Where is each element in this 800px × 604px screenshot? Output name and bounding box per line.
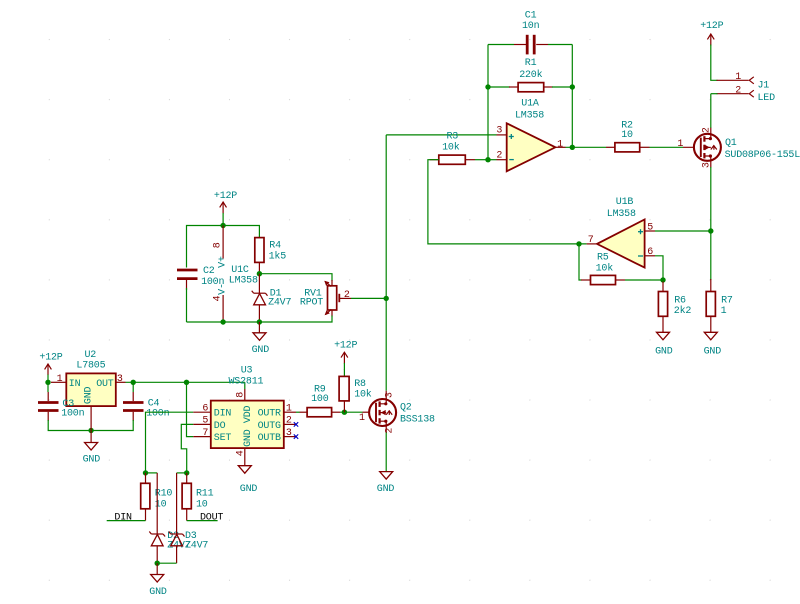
junction R11 top	[184, 470, 189, 475]
wire Q2 drain pin	[385, 391, 387, 399]
junction U1A output	[570, 145, 575, 150]
svg-text:8: 8	[236, 392, 247, 398]
svg-text:Q2: Q2	[400, 403, 412, 414]
svg-text:GND: GND	[655, 347, 673, 358]
svg-text:GND: GND	[240, 484, 258, 495]
svg-text:WS2811: WS2811	[228, 377, 263, 388]
resistor R1	[488, 83, 572, 92]
power +12P mid left	[220, 202, 227, 226]
svg-text:2: 2	[496, 150, 502, 161]
svg-text:7: 7	[588, 235, 594, 246]
svg-text:8: 8	[213, 242, 224, 248]
junction pin2	[485, 157, 490, 162]
wire J1 pin2 down	[711, 93, 718, 95]
wire SET to rail	[187, 382, 194, 436]
wire bottom rail ref	[187, 316, 333, 323]
op-amp U1A	[497, 123, 566, 171]
wire R9 to gate	[340, 411, 363, 413]
svg-text:GND: GND	[243, 429, 254, 447]
svg-text:GND: GND	[704, 347, 722, 358]
svg-text:4: 4	[236, 450, 247, 456]
zener D1	[252, 274, 268, 322]
svg-text:DO: DO	[214, 421, 226, 432]
svg-text:100: 100	[311, 394, 329, 405]
wire op-amp pin3	[386, 134, 496, 136]
svg-text:6: 6	[647, 247, 653, 258]
ground under R6	[657, 332, 670, 340]
zener D2	[149, 473, 165, 563]
svg-text:1: 1	[557, 139, 563, 150]
svg-text:C1: C1	[525, 10, 537, 21]
svg-text:R4: R4	[269, 241, 281, 252]
svg-text:1: 1	[57, 374, 63, 385]
wire op-amp pin2	[488, 159, 497, 161]
svg-text:OUT: OUT	[96, 379, 114, 390]
wire U1A output	[566, 146, 607, 148]
wire R3 right	[475, 159, 488, 161]
wire feedback right vertical	[571, 45, 573, 148]
svg-text:R3: R3	[446, 132, 458, 143]
svg-text:R5: R5	[597, 252, 609, 263]
svg-text:Q1: Q1	[725, 138, 737, 149]
wire DO	[181, 424, 193, 473]
wire net DOUT	[187, 520, 218, 522]
svg-text:10n: 10n	[522, 21, 540, 32]
svg-text:6: 6	[202, 403, 208, 414]
svg-text:OUTR: OUTR	[258, 409, 281, 420]
svg-text:3: 3	[496, 126, 502, 137]
wire gnd rail U2	[48, 420, 133, 431]
svg-text:2: 2	[286, 416, 292, 427]
wire OUTR to R9	[296, 411, 300, 413]
svg-text:U1A: U1A	[521, 99, 539, 110]
resistor R7	[706, 279, 715, 332]
wire 5V rail	[126, 381, 245, 383]
wire D2 branch	[146, 472, 158, 474]
wire Q2 source down	[385, 426, 387, 472]
svg-text:+12P: +12P	[700, 21, 723, 32]
power +12P U2	[45, 364, 52, 382]
svg-text:+12P: +12P	[39, 352, 62, 363]
zener D3	[169, 473, 185, 563]
wire pin5	[655, 230, 711, 232]
ic U3 WS2811	[193, 389, 296, 466]
ground under D2 D3	[151, 563, 164, 582]
resistor R10	[141, 473, 150, 521]
svg-text:U3: U3	[241, 366, 253, 377]
wire C1 right	[548, 44, 572, 46]
no-connect OUTB	[294, 434, 298, 438]
resistor R2	[606, 143, 650, 152]
wire net DIN	[107, 520, 146, 522]
svg-text:10k: 10k	[596, 262, 614, 274]
regulator U2	[51, 373, 126, 418]
svg-text:2: 2	[344, 290, 350, 301]
wire pin3 drop vertical	[385, 135, 387, 391]
connector J1 pin2	[717, 90, 754, 97]
wire R4 to RV1 top	[259, 274, 332, 281]
svg-text:3: 3	[286, 428, 292, 439]
power +12P top right	[707, 34, 714, 46]
svg-text:GND: GND	[83, 387, 94, 405]
svg-text:7: 7	[202, 428, 208, 439]
svg-text:5: 5	[202, 416, 208, 427]
svg-text:10k: 10k	[442, 142, 460, 154]
svg-text:SET: SET	[214, 433, 232, 444]
svg-text:10: 10	[621, 130, 633, 141]
svg-text:Z4V7: Z4V7	[185, 541, 208, 552]
svg-text:IN: IN	[69, 379, 81, 390]
svg-text:+12P: +12P	[334, 340, 357, 351]
wire C2 bottom	[186, 288, 188, 322]
junction +12P rail	[220, 223, 225, 228]
svg-text:10: 10	[196, 499, 208, 510]
wire D3 branch	[177, 472, 187, 474]
capacitor C1	[514, 35, 548, 55]
wire top rail C2 R4	[187, 226, 260, 268]
junction R8 gate	[342, 410, 347, 415]
svg-text:GND: GND	[377, 484, 395, 495]
svg-text:3: 3	[117, 374, 123, 385]
svg-text:100n: 100n	[146, 409, 169, 420]
resistor R4	[255, 238, 264, 274]
junction R1 left	[485, 84, 490, 89]
svg-text:BSS138: BSS138	[400, 414, 435, 425]
potentiometer RV1	[324, 280, 351, 317]
junction gnd diodes	[155, 561, 160, 566]
wire C1 left	[488, 44, 514, 46]
junction C4 rail	[131, 380, 136, 385]
capacitor C3	[38, 382, 59, 421]
transistor Q1	[683, 133, 721, 162]
svg-text:DIN: DIN	[214, 409, 232, 420]
svg-text:DIN: DIN	[114, 512, 132, 523]
junction R4 bottom	[257, 271, 262, 276]
ground under U2	[85, 418, 98, 450]
junction SET rail	[184, 380, 189, 385]
ground under U3	[238, 466, 251, 474]
svg-text:U1C: U1C	[231, 265, 249, 276]
op-amp power unit U1C pin 4	[222, 295, 224, 322]
capacitor C4	[123, 382, 144, 421]
wire feedback left vertical	[487, 45, 489, 160]
svg-text:GND: GND	[252, 345, 270, 356]
svg-text:5: 5	[647, 222, 653, 233]
svg-text:10: 10	[155, 499, 167, 510]
wire +12P to J1 pin1	[711, 45, 718, 81]
svg-text:Z4V7: Z4V7	[268, 298, 291, 309]
junction gnd rail	[88, 428, 93, 433]
svg-text:RPOT: RPOT	[300, 298, 323, 309]
wire Q1 drain up	[710, 128, 712, 135]
svg-text:GND: GND	[83, 455, 101, 466]
wire U1B out to R5	[579, 244, 582, 280]
resistor R11	[182, 473, 191, 521]
junction R10 top	[143, 470, 148, 475]
junction pin5 R7	[708, 228, 713, 233]
svg-text:R7: R7	[721, 295, 733, 306]
svg-text:10k: 10k	[354, 388, 372, 400]
svg-text:U2: U2	[84, 350, 96, 361]
svg-text:R1: R1	[525, 58, 537, 69]
svg-text:2: 2	[735, 86, 741, 97]
resistor R8	[339, 369, 349, 412]
svg-text:LM358: LM358	[607, 209, 636, 220]
wire R3 to U1B output	[428, 160, 587, 244]
resistor R3	[430, 155, 476, 164]
svg-text:R8: R8	[354, 379, 366, 390]
svg-text:DOUT: DOUT	[200, 512, 223, 523]
junction RV1 wiper	[384, 296, 389, 301]
svg-text:SUD08P06-155L: SUD08P06-155L	[725, 150, 800, 161]
svg-text:C2: C2	[203, 266, 215, 277]
svg-text:1: 1	[735, 72, 741, 83]
svg-text:1: 1	[721, 306, 727, 317]
svg-text:LM358: LM358	[229, 276, 258, 287]
svg-text:LED: LED	[758, 93, 776, 104]
resistor R5	[581, 275, 625, 284]
resistor R9	[300, 408, 341, 417]
svg-text:V+: V+	[217, 256, 228, 268]
wire R2 to Q1 gate	[650, 146, 684, 148]
svg-text:220k: 220k	[519, 69, 542, 81]
wire VDD drop	[244, 382, 246, 389]
wire RV1 wiper	[351, 297, 386, 299]
junction R1 right	[570, 84, 575, 89]
wire R5 to junction	[625, 279, 663, 281]
svg-text:U1B: U1B	[616, 197, 634, 208]
ground under Q2	[380, 472, 393, 480]
svg-text:OUTG: OUTG	[258, 421, 281, 432]
junction pin4 rail	[220, 319, 225, 324]
op-amp power unit U1C pin 8	[222, 226, 224, 259]
svg-text:1: 1	[359, 413, 365, 424]
wire DIN	[146, 412, 194, 473]
svg-text:R11: R11	[196, 488, 214, 499]
resistor R6	[658, 282, 667, 333]
junction D1 rail	[257, 319, 262, 324]
power +12P R8	[341, 352, 348, 369]
junction U1B output	[576, 241, 581, 246]
svg-text:L7805: L7805	[76, 361, 105, 372]
svg-text:100n: 100n	[61, 409, 84, 420]
svg-text:OUTB: OUTB	[258, 433, 281, 444]
svg-text:1: 1	[286, 403, 292, 414]
svg-text:VDD: VDD	[243, 406, 254, 424]
junction R5 R6	[660, 277, 665, 282]
svg-text:4: 4	[213, 296, 224, 302]
svg-text:V-: V-	[217, 283, 228, 295]
wire Q1 source down	[710, 161, 712, 168]
capacitor C2	[177, 270, 198, 290]
svg-text:1k5: 1k5	[269, 251, 287, 263]
svg-text:1: 1	[677, 139, 683, 150]
svg-text:2k2: 2k2	[674, 305, 692, 317]
svg-text:J1: J1	[758, 81, 770, 92]
op-amp U1B	[587, 220, 655, 268]
wire pin6 to junction	[655, 256, 663, 280]
ground under R7	[704, 332, 717, 340]
connector J1 pin1	[717, 77, 754, 84]
transistor Q2	[363, 398, 397, 427]
no-connect OUTG	[294, 422, 298, 426]
svg-text:R6: R6	[674, 295, 686, 306]
ground under D1	[253, 322, 266, 340]
svg-text:+12P: +12P	[214, 191, 237, 202]
wire D3 anode to gnd	[157, 562, 176, 564]
svg-text:LM358: LM358	[515, 111, 544, 122]
junction +12P C3	[45, 380, 50, 385]
svg-text:GND: GND	[149, 587, 167, 598]
